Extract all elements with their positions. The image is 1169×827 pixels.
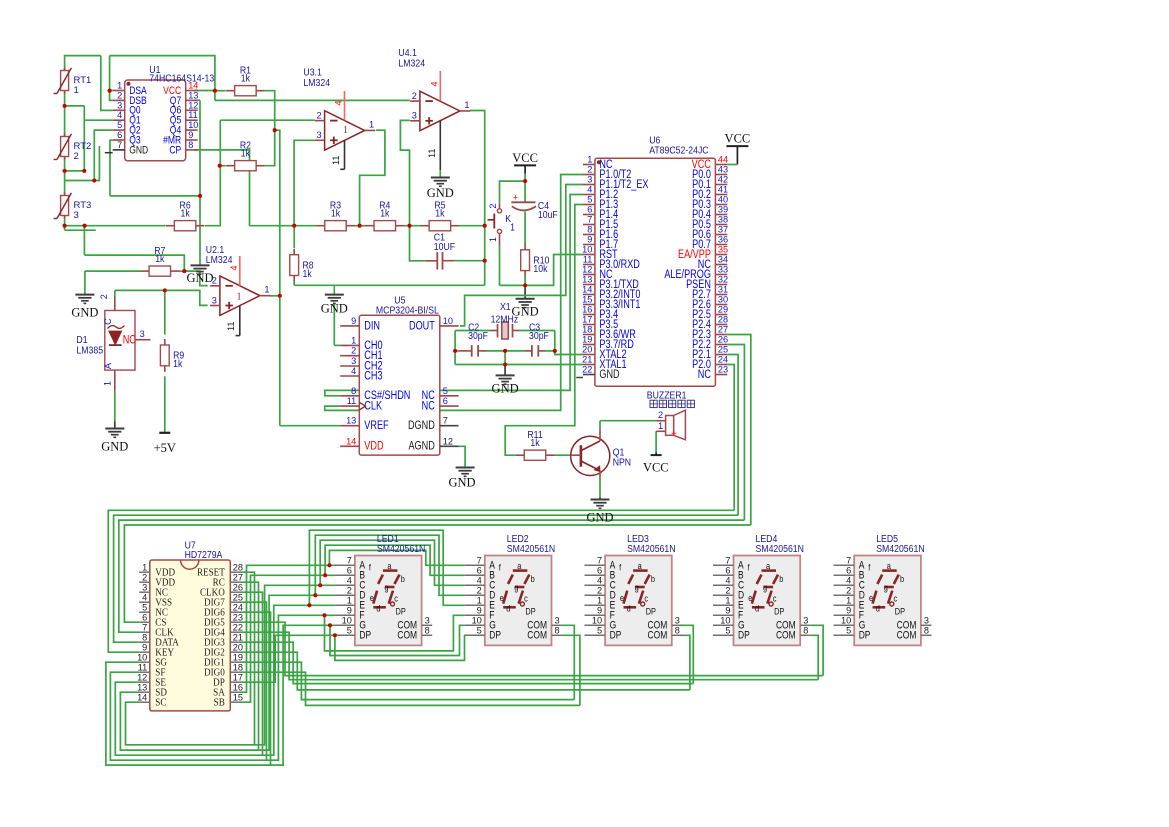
svg-text:DP: DP bbox=[774, 607, 785, 617]
svg-text:20: 20 bbox=[233, 642, 243, 652]
svg-text:d: d bbox=[876, 604, 880, 614]
svg-text:7: 7 bbox=[477, 556, 482, 566]
svg-text:d: d bbox=[506, 604, 510, 614]
svg-text:LM324: LM324 bbox=[398, 58, 425, 69]
svg-text:3: 3 bbox=[675, 616, 680, 626]
svg-text:D1: D1 bbox=[76, 335, 87, 346]
svg-text:g: g bbox=[635, 583, 639, 593]
svg-text:SM420561N: SM420561N bbox=[756, 543, 804, 554]
svg-text:a: a bbox=[766, 561, 770, 571]
svg-text:3: 3 bbox=[351, 356, 356, 366]
svg-text:2: 2 bbox=[316, 110, 321, 120]
svg-text:4: 4 bbox=[142, 592, 147, 602]
svg-text:DP: DP bbox=[396, 607, 407, 617]
svg-text:2: 2 bbox=[587, 165, 592, 175]
svg-text:1: 1 bbox=[587, 155, 592, 165]
svg-text:NPN: NPN bbox=[613, 457, 631, 468]
svg-text:9: 9 bbox=[477, 606, 482, 616]
svg-text:3: 3 bbox=[803, 616, 808, 626]
svg-text:GND: GND bbox=[492, 381, 519, 395]
svg-text:e: e bbox=[748, 593, 752, 603]
svg-text:SM420561N: SM420561N bbox=[377, 543, 425, 554]
svg-text:27: 27 bbox=[718, 325, 728, 335]
svg-text:5: 5 bbox=[725, 626, 730, 636]
svg-text:COM: COM bbox=[648, 630, 668, 642]
svg-text:19: 19 bbox=[233, 652, 243, 662]
svg-text:X1: X1 bbox=[500, 302, 511, 313]
svg-text:GND: GND bbox=[186, 271, 213, 285]
svg-text:3: 3 bbox=[140, 329, 145, 339]
svg-text:2: 2 bbox=[597, 586, 602, 596]
svg-text:1: 1 bbox=[347, 596, 352, 606]
svg-text:LM324: LM324 bbox=[303, 77, 330, 88]
svg-text:4: 4 bbox=[597, 576, 602, 586]
svg-text:25: 25 bbox=[718, 345, 728, 355]
svg-text:COM: COM bbox=[897, 630, 917, 642]
svg-text:b: b bbox=[900, 574, 904, 584]
svg-text:14: 14 bbox=[346, 436, 356, 446]
svg-text:8: 8 bbox=[351, 386, 356, 396]
svg-text:5: 5 bbox=[117, 120, 122, 130]
svg-text:24: 24 bbox=[718, 355, 728, 365]
svg-text:a: a bbox=[887, 561, 891, 571]
svg-text:10: 10 bbox=[592, 616, 602, 626]
svg-text:2: 2 bbox=[477, 586, 482, 596]
svg-text:2: 2 bbox=[142, 572, 147, 582]
svg-text:2: 2 bbox=[74, 151, 79, 162]
svg-text:74HC164S14-13: 74HC164S14-13 bbox=[149, 73, 214, 84]
svg-text:GND: GND bbox=[129, 144, 148, 156]
svg-text:+: + bbox=[671, 429, 677, 440]
svg-text:12: 12 bbox=[137, 672, 147, 682]
svg-text:39: 39 bbox=[718, 205, 728, 215]
svg-text:2: 2 bbox=[725, 586, 730, 596]
svg-text:26: 26 bbox=[718, 335, 728, 345]
svg-text:1k: 1k bbox=[530, 438, 540, 449]
svg-text:11: 11 bbox=[427, 148, 437, 158]
svg-text:SB: SB bbox=[214, 697, 225, 709]
svg-text:g: g bbox=[884, 583, 888, 593]
svg-text:NC: NC bbox=[422, 399, 435, 413]
svg-text:SM420561N: SM420561N bbox=[627, 543, 675, 554]
svg-text:COM: COM bbox=[527, 630, 547, 642]
svg-text:34: 34 bbox=[718, 255, 728, 265]
svg-text:9: 9 bbox=[587, 235, 592, 245]
svg-text:VDD: VDD bbox=[364, 440, 383, 454]
svg-text:7: 7 bbox=[347, 556, 352, 566]
svg-text:10uF: 10uF bbox=[538, 209, 558, 220]
svg-text:CP: CP bbox=[169, 144, 181, 156]
svg-text:3: 3 bbox=[425, 616, 430, 626]
svg-text:5: 5 bbox=[142, 602, 147, 612]
svg-text:10k: 10k bbox=[533, 263, 547, 274]
svg-text:CLK: CLK bbox=[364, 399, 382, 413]
svg-text:16: 16 bbox=[582, 305, 592, 315]
svg-text:38: 38 bbox=[718, 215, 728, 225]
svg-text:2: 2 bbox=[351, 346, 356, 356]
svg-text:1: 1 bbox=[343, 125, 348, 136]
svg-text:17: 17 bbox=[582, 315, 592, 325]
svg-text:2: 2 bbox=[347, 586, 352, 596]
svg-text:6: 6 bbox=[117, 130, 122, 140]
svg-text:40: 40 bbox=[718, 195, 728, 205]
svg-text:13: 13 bbox=[582, 275, 592, 285]
svg-text:8: 8 bbox=[587, 225, 592, 235]
svg-text:1: 1 bbox=[725, 596, 730, 606]
svg-text:7: 7 bbox=[597, 556, 602, 566]
svg-text:4: 4 bbox=[347, 576, 352, 586]
svg-text:8: 8 bbox=[142, 632, 147, 642]
svg-text:9: 9 bbox=[846, 606, 851, 616]
svg-text:DP: DP bbox=[525, 607, 536, 617]
svg-text:VREF: VREF bbox=[364, 419, 389, 433]
svg-text:10: 10 bbox=[720, 616, 730, 626]
svg-text:30pF: 30pF bbox=[529, 330, 549, 341]
svg-text:11: 11 bbox=[188, 110, 198, 120]
svg-text:+5V: +5V bbox=[154, 441, 176, 455]
svg-text:1: 1 bbox=[477, 596, 482, 606]
svg-text:9: 9 bbox=[597, 606, 602, 616]
svg-text:g: g bbox=[763, 583, 767, 593]
svg-text:1: 1 bbox=[142, 562, 147, 572]
svg-text:10: 10 bbox=[137, 652, 147, 662]
svg-text:3: 3 bbox=[117, 100, 122, 110]
svg-text:17: 17 bbox=[233, 672, 243, 682]
svg-text:13: 13 bbox=[346, 416, 356, 426]
svg-text:9: 9 bbox=[142, 642, 147, 652]
svg-text:SC: SC bbox=[155, 697, 166, 709]
svg-text:12: 12 bbox=[443, 436, 453, 446]
svg-text:1k: 1k bbox=[380, 208, 390, 219]
svg-text:7: 7 bbox=[117, 140, 122, 150]
svg-text:5: 5 bbox=[846, 626, 851, 636]
svg-text:15: 15 bbox=[582, 295, 592, 305]
svg-text:6: 6 bbox=[142, 612, 147, 622]
svg-text:6: 6 bbox=[443, 396, 448, 406]
svg-text:42: 42 bbox=[718, 175, 728, 185]
svg-text:U4.1: U4.1 bbox=[398, 48, 416, 59]
svg-text:1: 1 bbox=[74, 85, 79, 96]
svg-text:9: 9 bbox=[351, 316, 356, 326]
svg-text:5: 5 bbox=[443, 386, 448, 396]
svg-text:a: a bbox=[638, 561, 642, 571]
svg-text:29: 29 bbox=[718, 305, 728, 315]
svg-text:4: 4 bbox=[587, 185, 592, 195]
svg-text:SM420561N: SM420561N bbox=[507, 543, 555, 554]
svg-text:11: 11 bbox=[331, 155, 341, 165]
svg-text:30: 30 bbox=[718, 295, 728, 305]
svg-text:10: 10 bbox=[472, 616, 482, 626]
svg-text:GND: GND bbox=[586, 511, 613, 525]
svg-text:19: 19 bbox=[582, 335, 592, 345]
svg-text:6: 6 bbox=[587, 205, 592, 215]
svg-text:NC: NC bbox=[123, 333, 136, 347]
svg-text:7: 7 bbox=[587, 215, 592, 225]
svg-text:6: 6 bbox=[477, 566, 482, 576]
svg-text:1: 1 bbox=[510, 222, 515, 233]
svg-text:LM324: LM324 bbox=[206, 255, 233, 266]
svg-text:7: 7 bbox=[443, 416, 448, 426]
svg-text:C: C bbox=[103, 318, 113, 325]
svg-text:e: e bbox=[370, 593, 374, 603]
svg-text:11: 11 bbox=[138, 662, 148, 672]
svg-text:7: 7 bbox=[142, 622, 147, 632]
svg-text:8: 8 bbox=[555, 626, 560, 636]
svg-text:8: 8 bbox=[425, 626, 430, 636]
svg-text:4: 4 bbox=[351, 366, 356, 376]
svg-text:d: d bbox=[755, 604, 759, 614]
svg-text:44: 44 bbox=[718, 155, 728, 165]
svg-text:4: 4 bbox=[117, 110, 122, 120]
svg-text:14: 14 bbox=[582, 285, 592, 295]
svg-text:6: 6 bbox=[725, 566, 730, 576]
svg-text:11: 11 bbox=[583, 255, 593, 265]
svg-text:22: 22 bbox=[233, 622, 243, 632]
svg-text:5: 5 bbox=[587, 195, 592, 205]
svg-text:15: 15 bbox=[233, 692, 243, 702]
svg-text:16: 16 bbox=[233, 682, 243, 692]
svg-text:COM: COM bbox=[776, 630, 796, 642]
svg-text:4: 4 bbox=[334, 100, 344, 105]
svg-text:8: 8 bbox=[675, 626, 680, 636]
svg-text:1k: 1k bbox=[303, 268, 313, 279]
svg-text:33: 33 bbox=[718, 265, 728, 275]
svg-text:VCC: VCC bbox=[725, 132, 751, 146]
svg-text:5: 5 bbox=[347, 626, 352, 636]
svg-text:43: 43 bbox=[718, 165, 728, 175]
svg-text:MCP3204-BI/SL: MCP3204-BI/SL bbox=[376, 305, 439, 316]
svg-text:1: 1 bbox=[351, 335, 356, 345]
svg-text:10: 10 bbox=[443, 316, 453, 326]
svg-text:1: 1 bbox=[103, 381, 113, 386]
svg-text:31: 31 bbox=[718, 285, 728, 295]
svg-text:4: 4 bbox=[229, 265, 239, 270]
svg-text:DP: DP bbox=[738, 630, 750, 642]
svg-text:21: 21 bbox=[582, 355, 592, 365]
svg-text:c: c bbox=[394, 594, 398, 604]
svg-text:5: 5 bbox=[597, 626, 602, 636]
svg-text:2: 2 bbox=[488, 203, 498, 208]
svg-text:26: 26 bbox=[233, 582, 243, 592]
svg-text:1: 1 bbox=[264, 285, 269, 295]
svg-text:2: 2 bbox=[846, 586, 851, 596]
svg-text:GND: GND bbox=[512, 304, 539, 318]
svg-text:18: 18 bbox=[582, 325, 592, 335]
svg-text:22: 22 bbox=[582, 365, 592, 375]
svg-text:23: 23 bbox=[233, 612, 243, 622]
svg-text:c: c bbox=[894, 594, 898, 604]
svg-text:c: c bbox=[524, 594, 528, 604]
svg-text:1: 1 bbox=[464, 100, 469, 110]
svg-text:g: g bbox=[514, 583, 518, 593]
svg-text:GND: GND bbox=[427, 186, 454, 200]
svg-text:COM: COM bbox=[397, 630, 417, 642]
svg-text:e: e bbox=[500, 593, 504, 603]
svg-text:NC: NC bbox=[698, 368, 711, 382]
svg-text:2: 2 bbox=[117, 90, 122, 100]
svg-text:37: 37 bbox=[718, 225, 728, 235]
svg-text:4: 4 bbox=[429, 81, 439, 86]
svg-text:b: b bbox=[779, 574, 783, 584]
svg-text:1k: 1k bbox=[435, 208, 445, 219]
svg-text:g: g bbox=[384, 583, 388, 593]
svg-text:VCC: VCC bbox=[512, 151, 538, 165]
svg-text:1: 1 bbox=[237, 292, 242, 303]
svg-text:AT89C52-24JC: AT89C52-24JC bbox=[649, 145, 709, 156]
svg-text:1k: 1k bbox=[241, 73, 251, 84]
svg-text:1: 1 bbox=[117, 81, 122, 91]
svg-text:3: 3 bbox=[412, 111, 417, 121]
svg-text:36: 36 bbox=[718, 235, 728, 245]
svg-text:A: A bbox=[103, 362, 113, 369]
svg-text:28: 28 bbox=[718, 315, 728, 325]
svg-text:9: 9 bbox=[347, 606, 352, 616]
svg-text:3: 3 bbox=[555, 616, 560, 626]
svg-text:GND: GND bbox=[321, 302, 348, 316]
svg-text:a: a bbox=[387, 561, 391, 571]
svg-text:11: 11 bbox=[347, 396, 357, 406]
svg-text:VCC: VCC bbox=[643, 461, 669, 475]
svg-text:3: 3 bbox=[142, 582, 147, 592]
svg-text:3: 3 bbox=[924, 616, 929, 626]
svg-text:24: 24 bbox=[233, 602, 243, 612]
svg-text:6: 6 bbox=[347, 566, 352, 576]
svg-text:1: 1 bbox=[369, 119, 374, 129]
svg-text:6: 6 bbox=[597, 566, 602, 576]
svg-text:4: 4 bbox=[846, 576, 851, 586]
svg-text:12: 12 bbox=[188, 100, 198, 110]
svg-text:b: b bbox=[401, 574, 405, 584]
svg-text:1: 1 bbox=[658, 421, 663, 431]
svg-text:b: b bbox=[531, 574, 535, 584]
svg-text:BUZZER1: BUZZER1 bbox=[647, 390, 687, 401]
svg-text:18: 18 bbox=[233, 662, 243, 672]
svg-text:DIN: DIN bbox=[364, 319, 380, 333]
svg-text:AGND: AGND bbox=[408, 440, 435, 454]
svg-text:DGND: DGND bbox=[408, 419, 435, 433]
svg-text:e: e bbox=[620, 593, 624, 603]
svg-text:35: 35 bbox=[718, 245, 728, 255]
svg-text:4: 4 bbox=[477, 576, 482, 586]
svg-text:1k: 1k bbox=[331, 208, 341, 219]
svg-text:DP: DP bbox=[895, 607, 906, 617]
svg-text:DP: DP bbox=[610, 630, 622, 642]
svg-text:41: 41 bbox=[718, 185, 728, 195]
svg-text:14: 14 bbox=[188, 81, 198, 91]
svg-text:1k: 1k bbox=[180, 208, 190, 219]
svg-text:3: 3 bbox=[316, 130, 321, 140]
svg-text:12: 12 bbox=[582, 265, 592, 275]
svg-text:DP: DP bbox=[859, 630, 871, 642]
svg-text:30pF: 30pF bbox=[468, 330, 488, 341]
svg-text:GND: GND bbox=[101, 440, 128, 454]
svg-text:3: 3 bbox=[587, 175, 592, 185]
svg-text:3: 3 bbox=[212, 295, 217, 305]
svg-text:10: 10 bbox=[582, 245, 592, 255]
svg-text:+: + bbox=[513, 193, 518, 203]
svg-text:c: c bbox=[644, 594, 648, 604]
svg-text:d: d bbox=[376, 604, 380, 614]
svg-text:LM385: LM385 bbox=[76, 345, 103, 356]
svg-text:2: 2 bbox=[658, 410, 663, 420]
svg-text:10: 10 bbox=[188, 120, 198, 130]
svg-text:8: 8 bbox=[924, 626, 929, 636]
svg-text:10UF: 10UF bbox=[434, 241, 456, 252]
svg-text:14: 14 bbox=[137, 692, 147, 702]
svg-text:8: 8 bbox=[803, 626, 808, 636]
svg-text:21: 21 bbox=[233, 632, 243, 642]
svg-text:25: 25 bbox=[233, 592, 243, 602]
svg-text:32: 32 bbox=[718, 275, 728, 285]
svg-text:11: 11 bbox=[226, 321, 236, 331]
svg-text:HD7279A: HD7279A bbox=[185, 550, 224, 561]
svg-text:U6: U6 bbox=[649, 135, 660, 146]
svg-text:U2.1: U2.1 bbox=[206, 244, 224, 255]
svg-text:9: 9 bbox=[188, 130, 193, 140]
svg-text:d: d bbox=[627, 604, 631, 614]
svg-text:1: 1 bbox=[597, 596, 602, 606]
svg-text:1k: 1k bbox=[155, 254, 165, 265]
svg-text:3: 3 bbox=[74, 210, 79, 221]
svg-text:DOUT: DOUT bbox=[409, 319, 435, 333]
svg-text:6: 6 bbox=[846, 566, 851, 576]
svg-text:2: 2 bbox=[412, 91, 417, 101]
svg-text:GND: GND bbox=[448, 476, 475, 490]
svg-text:10: 10 bbox=[841, 616, 851, 626]
svg-text:9: 9 bbox=[725, 606, 730, 616]
svg-text:13: 13 bbox=[137, 682, 147, 692]
svg-text:5: 5 bbox=[477, 626, 482, 636]
svg-text:1: 1 bbox=[846, 596, 851, 606]
svg-text:13: 13 bbox=[188, 90, 198, 100]
svg-text:1k: 1k bbox=[173, 359, 183, 370]
svg-text:4: 4 bbox=[725, 576, 730, 586]
svg-text:2: 2 bbox=[99, 294, 109, 299]
svg-text:20: 20 bbox=[582, 345, 592, 355]
svg-text:a: a bbox=[517, 561, 521, 571]
svg-text:GND: GND bbox=[599, 368, 620, 382]
svg-text:DP: DP bbox=[359, 630, 371, 642]
svg-text:CH3: CH3 bbox=[364, 369, 382, 383]
svg-text:8: 8 bbox=[188, 140, 193, 150]
svg-text:DP: DP bbox=[489, 630, 501, 642]
svg-text:U3.1: U3.1 bbox=[303, 67, 321, 78]
svg-text:23: 23 bbox=[718, 365, 728, 375]
svg-text:28: 28 bbox=[233, 562, 243, 572]
svg-text:GND: GND bbox=[71, 306, 98, 320]
svg-text:1: 1 bbox=[488, 237, 498, 242]
svg-text:DP: DP bbox=[646, 607, 657, 617]
svg-text:7: 7 bbox=[846, 556, 851, 566]
svg-text:7: 7 bbox=[725, 556, 730, 566]
svg-text:e: e bbox=[869, 593, 873, 603]
svg-text:1k: 1k bbox=[241, 148, 251, 159]
svg-text:b: b bbox=[651, 574, 655, 584]
svg-text:c: c bbox=[773, 594, 777, 604]
svg-text:SM420561N: SM420561N bbox=[876, 543, 924, 554]
svg-text:10: 10 bbox=[342, 616, 352, 626]
svg-text:27: 27 bbox=[233, 572, 243, 582]
